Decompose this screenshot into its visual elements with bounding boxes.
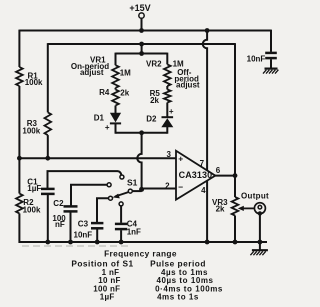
ground bottom right (250, 250, 268, 255)
label R4 (99, 88, 110, 97)
junction dot C1 at 0V rail (45, 240, 50, 245)
svg-text:C2: C2 (53, 199, 64, 208)
junction dot R3 to pin3 line (45, 156, 50, 161)
output jack outer ring (254, 203, 265, 214)
wire C1 to S1 contact 1 (48, 171, 122, 188)
table row 3 period (155, 285, 223, 294)
wire top rail corner down to 10nF (270, 30, 272, 52)
label VR2 (146, 59, 162, 68)
table row 2 period (156, 276, 213, 285)
svg-text:+: + (169, 107, 174, 116)
0V bottom rail (19, 241, 268, 243)
svg-text:D1: D1 (94, 114, 105, 123)
timing bracket wire (116, 53, 168, 55)
table header Position of S1 (71, 259, 133, 269)
svg-text:10nF: 10nF (74, 231, 93, 240)
wire top rail corner down to R1 (18, 30, 20, 67)
svg-text:Position of S1: Position of S1 (71, 259, 133, 269)
label CA3130 (179, 170, 213, 180)
label adjust (80, 68, 104, 77)
S1 common wire to timing node (132, 190, 141, 192)
wire R4 to D1 (115, 106, 117, 114)
junction dot diodes to timing node (139, 130, 144, 135)
svg-text:2k: 2k (216, 205, 225, 214)
junction dot output at 0V rail (258, 240, 263, 245)
wire C3 to S1 contact 3 (97, 198, 108, 222)
wire node A down to R2 (18, 158, 20, 193)
wire C2 to 0V rail (70, 213, 72, 243)
wire feedback rail corner down to R3 (47, 43, 49, 112)
label VR2 value 1M (173, 60, 184, 69)
svg-text:1M: 1M (120, 69, 131, 78)
junction dot C3 at 0V rail (95, 240, 100, 245)
label C3 value 10nF (74, 231, 93, 240)
capacitor C1 1uF (41, 189, 55, 194)
table row 4 value 1uF (100, 292, 115, 301)
svg-text:100k: 100k (23, 205, 41, 214)
label R3 (27, 119, 38, 128)
label period (174, 74, 199, 83)
capacitor C2 100nF (64, 206, 78, 211)
label pin 7 (200, 159, 205, 168)
label C1 (27, 178, 38, 187)
resistor R2 (16, 194, 23, 214)
svg-text:C3: C3 (78, 219, 89, 228)
label C4 value 1nF (127, 227, 141, 236)
svg-text:−: − (178, 182, 183, 192)
label R5 value 2k (150, 96, 159, 105)
wire feedback rail corner down to pin6 node (234, 43, 236, 176)
label D1 polarity + (105, 123, 110, 132)
op-amp - input mark (178, 182, 183, 192)
svg-text:100k: 100k (25, 78, 43, 87)
svg-text:VR2: VR2 (146, 59, 162, 68)
label S1 (127, 178, 138, 188)
svg-text:R4: R4 (99, 88, 110, 97)
ground top right (263, 69, 278, 74)
label C2 (53, 199, 64, 208)
label R3 value 100k (22, 127, 40, 136)
label Output (241, 191, 269, 200)
label On-period (71, 62, 109, 71)
label pin 6 (216, 166, 221, 175)
svg-text:nF: nF (55, 220, 65, 229)
svg-text:S1: S1 (127, 178, 138, 188)
resistor R5 2k (164, 90, 171, 103)
label D2 polarity + (169, 107, 174, 116)
diode junction wire (116, 132, 168, 134)
output jack sleeve contact dot (258, 211, 262, 215)
wire D2 to diode junction (166, 127, 168, 134)
svg-text:3: 3 (167, 150, 172, 159)
S1 common contact (128, 189, 132, 193)
wire bracket to VR1 (115, 53, 117, 66)
label D1 (94, 114, 105, 123)
S1 contact 3 (109, 196, 113, 200)
label C2 value 100 (52, 214, 66, 223)
label R4 value 2k (120, 89, 129, 98)
svg-text:2: 2 (165, 181, 170, 190)
pin4 wire to 0V rail (206, 181, 208, 243)
table header Pulse period (150, 259, 206, 269)
svg-text:1µF: 1µF (100, 292, 115, 301)
timing node vertical with hop over pin3 wire (137, 133, 141, 191)
stub feedback rail to bracket (141, 44, 143, 54)
label R2 value 100k (23, 205, 41, 214)
pin3 input wire (19, 157, 176, 159)
table row 3 value 100nF (93, 285, 120, 294)
S1 wiper arm (113, 192, 129, 198)
junction dot pin6 to VR3 line (233, 173, 238, 178)
capacitor 10nF decoupling (265, 53, 277, 58)
svg-text:2k: 2k (150, 96, 159, 105)
junction dot timing node at pin2 (139, 187, 144, 192)
table row 1 period (161, 268, 208, 277)
label VR1 value 1M (120, 69, 131, 78)
label Off- (177, 68, 192, 77)
junction dot C4 at 0V rail (119, 240, 124, 245)
feedback rail (pin6 to R3) (48, 43, 235, 45)
label R1 (28, 72, 39, 81)
svg-text:Output: Output (241, 191, 269, 200)
wire +15V terminal to top rail (141, 18, 143, 30)
wire 0V rail to ground stub (259, 242, 261, 250)
wire C2 to S1 contact 2 (71, 185, 107, 206)
wire VR1 to R4 (115, 88, 117, 90)
table row 4 period (157, 292, 199, 301)
potentiometer VR1 1M (112, 65, 119, 88)
svg-text:7: 7 (200, 159, 205, 168)
S1 contact 1 (120, 175, 124, 179)
svg-text:2k: 2k (120, 89, 129, 98)
label C3 (78, 219, 89, 228)
wire D1 to diode junction (115, 123, 117, 133)
label D2 (146, 114, 157, 123)
wire VR2 to R5 (166, 86, 168, 90)
label pin 3 (167, 150, 172, 159)
svg-text:adjust: adjust (80, 68, 104, 77)
capacitor C4 1nF (115, 224, 127, 229)
label R2 (23, 198, 34, 207)
svg-text:+15V: +15V (129, 3, 150, 13)
svg-text:4: 4 (201, 186, 206, 195)
junction dot pin4 at 0V rail (205, 240, 210, 245)
svg-text:CA3130: CA3130 (179, 170, 213, 180)
node A junction dot (R1/R2 divider to pin3) (17, 156, 22, 161)
label pin 4 (201, 186, 206, 195)
wire R2 bottom to 0V rail (18, 213, 20, 243)
pin2 input wire (142, 188, 176, 190)
label pin 2 (165, 181, 170, 190)
wire 10nF to ground (270, 59, 272, 68)
diode D2 (161, 117, 173, 127)
svg-text:adjust: adjust (176, 80, 200, 89)
table row 1 value 1nF (102, 268, 120, 277)
op-amp U1 CA3130 triangle (176, 151, 215, 200)
wire R5 to D2 (166, 103, 168, 118)
S1 contact 4 (119, 202, 123, 206)
svg-text:4ms to 1s: 4ms to 1s (157, 292, 199, 301)
junction dot VR3 at 0V rail (233, 240, 238, 245)
wire C1 to 0V rail (47, 195, 49, 243)
wire C4 to 0V rail (120, 230, 122, 243)
top +15V rail (19, 30, 271, 32)
diode D1 (110, 113, 121, 124)
svg-text:+: + (105, 123, 110, 132)
scan artifact underline (22, 245, 128, 247)
label VR3 value 2k (216, 205, 225, 214)
junction dot +15V on top rail (139, 28, 144, 33)
label 10nF (247, 54, 266, 63)
label R1 value 100k (25, 78, 43, 87)
label R5 (150, 89, 161, 98)
label C2 value nF (55, 220, 65, 229)
pin6 output wire (214, 175, 235, 177)
S1 contact 2 (107, 183, 111, 187)
wire bracket to VR2 (166, 53, 168, 65)
label VR3 (212, 198, 228, 207)
VR3 wiper arrowhead (238, 206, 244, 211)
potentiometer VR3 2k (232, 197, 239, 216)
op-amp + input mark (178, 153, 183, 163)
wire C4 to S1 contact 4 (120, 206, 122, 223)
resistor R4 2k (112, 90, 119, 106)
VR3 wiper wire (241, 207, 255, 209)
svg-text:Pulse period: Pulse period (150, 259, 206, 269)
capacitor C3 10nF (91, 223, 103, 228)
potentiometer VR2 1M (164, 64, 171, 86)
junction dot feedback rail to timing bracket (139, 42, 144, 47)
svg-text:1nF: 1nF (127, 227, 141, 236)
resistor R3 (45, 112, 52, 135)
wire C3 to 0V rail (96, 229, 98, 243)
wire output jack to 0V rail (259, 213, 261, 243)
svg-text:1µF: 1µF (27, 184, 41, 193)
label C4 (127, 220, 138, 229)
table title Frequency range (104, 249, 177, 259)
junction dot C2 at 0V rail (68, 240, 73, 245)
junction dot bracket (139, 51, 144, 56)
output jack center pin (258, 205, 262, 209)
label C1 value 1uF (27, 184, 41, 193)
svg-text:100k: 100k (22, 127, 40, 136)
label VR1 (90, 55, 106, 64)
svg-text:+: + (178, 153, 183, 163)
junction dot pin7 riser on top rail (205, 28, 210, 33)
wire R1 bottom to node A (18, 86, 20, 159)
svg-text:6: 6 (216, 166, 221, 175)
wire pin6 node down to VR3 (234, 176, 236, 197)
svg-text:D2: D2 (146, 114, 157, 123)
svg-text:10nF: 10nF (247, 54, 266, 63)
wire VR3 bottom to 0V rail (234, 216, 236, 243)
supply terminal +15V (129, 3, 150, 18)
wire R3 bottom to pin3 node (47, 135, 49, 159)
pin7 riser with hop over feedback rail (203, 31, 207, 171)
resistor R1 (16, 67, 23, 86)
table row 2 value 10nF (98, 276, 120, 285)
svg-text:Frequency range: Frequency range (104, 249, 177, 259)
label adjust2 (176, 80, 200, 89)
